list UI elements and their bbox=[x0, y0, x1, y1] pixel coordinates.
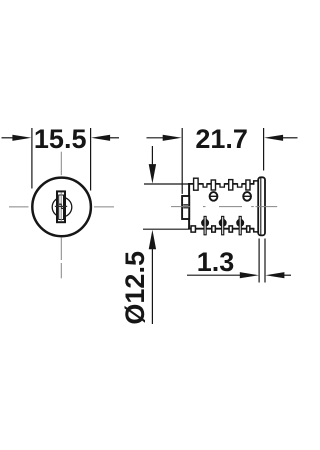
diameter 12.5 bottom extension line bbox=[143, 228, 189, 230]
bottom pin 2 stem bbox=[222, 216, 224, 234]
bottom pin 1 head bbox=[201, 219, 209, 227]
bottom tab 3 bbox=[229, 226, 232, 232]
front view plug circle bbox=[52, 197, 72, 217]
dimension 21.7 right dimension line bbox=[282, 137, 298, 139]
dimension 1.3 left dimension line bbox=[187, 274, 242, 276]
dimension 15.5 left dimension line bbox=[2, 137, 17, 139]
dimension 1.3 left extension line bbox=[258, 239, 260, 283]
flange inner line bbox=[260, 178, 262, 235]
diameter 12.5 upper arrow line bbox=[151, 146, 153, 166]
dimension 15.5 right dimension line bbox=[109, 137, 120, 139]
bottom tab 2 bbox=[212, 226, 216, 232]
top pin 2 bbox=[211, 180, 215, 190]
bottom pin 1 stem bbox=[204, 216, 206, 234]
dimension 1.3 right dimension line bbox=[283, 274, 292, 276]
top groove 1 bbox=[203, 183, 207, 187]
screw symbol right bbox=[243, 192, 251, 201]
cam at left bbox=[182, 196, 189, 219]
top groove 3 erase bbox=[237, 183, 242, 186]
dimension 21.7 left arrowhead bbox=[163, 135, 182, 141]
diameter 12.5 lower arrowhead (up) bbox=[149, 230, 156, 250]
front view vertical centerline bbox=[60, 152, 62, 279]
bottom pin 3 stem bbox=[239, 216, 241, 234]
body bottom edge bbox=[188, 228, 254, 230]
dimension 1.3 right extension line bbox=[264, 239, 266, 283]
bottom tab 4 bbox=[247, 226, 250, 232]
key profile cross line bbox=[55, 205, 67, 207]
cam inner line 2 bbox=[183, 205, 188, 207]
svg-text:Ø12.5: Ø12.5 bbox=[120, 251, 150, 325]
dimension 1.3 left arrowhead bbox=[240, 272, 259, 278]
top pin 1 bbox=[194, 178, 199, 190]
keyway centerline segment bbox=[60, 192, 62, 221]
body top edge bbox=[188, 183, 254, 185]
keyway inner rectangle bbox=[59, 195, 64, 220]
top pin 3 bbox=[229, 180, 233, 190]
dimension 21.7 left dimension line bbox=[147, 137, 165, 139]
front view outer circle (cylinder face) bbox=[32, 178, 91, 237]
cam inner line 3 bbox=[183, 207, 188, 209]
keyway outer rectangle bbox=[57, 191, 65, 222]
dimension 21.7 right extension line bbox=[263, 128, 265, 171]
cylinder body left edge bbox=[188, 183, 190, 229]
body right step top bbox=[254, 181, 259, 185]
dimension 21.7 left extension line bbox=[181, 128, 183, 194]
diameter 12.5 top extension line bbox=[144, 183, 189, 185]
bottom pin 2 head bbox=[219, 219, 227, 227]
top groove 1 erase bbox=[203, 183, 207, 186]
diameter 12.5 upper arrowhead (down) bbox=[149, 164, 156, 184]
cam inner line 1 bbox=[183, 204, 188, 206]
svg-text:15.5: 15.5 bbox=[34, 124, 87, 154]
dimension 15.5 right extension line bbox=[90, 128, 92, 191]
dimension 1.3 right arrowhead bbox=[265, 272, 284, 278]
dimension 21.7 right arrowhead bbox=[264, 135, 283, 141]
top groove 2 bbox=[220, 183, 224, 187]
side view centerline segments bbox=[171, 206, 277, 208]
screw symbol left bbox=[210, 192, 218, 201]
flange (face ring) bbox=[258, 177, 265, 235]
dimension 15.5 right arrowhead bbox=[91, 135, 110, 141]
dimension 15.5 left arrowhead bbox=[12, 135, 31, 141]
top pin 4 bbox=[246, 180, 250, 190]
svg-text:21.7: 21.7 bbox=[195, 124, 248, 154]
bottom pin 3 head bbox=[236, 219, 244, 227]
bottom tab 1 bbox=[191, 226, 195, 232]
key profile center step bbox=[60, 204, 62, 208]
diameter 12.5 lower arrow line bbox=[151, 247, 153, 324]
key profile left notch bbox=[59, 203, 62, 205]
body right step bottom bbox=[254, 228, 259, 232]
dimension 15.5 left extension line bbox=[31, 128, 33, 189]
key profile right notch bbox=[61, 207, 64, 209]
top groove 3 bbox=[238, 183, 242, 187]
top groove 2 erase bbox=[220, 183, 225, 186]
svg-text:1.3: 1.3 bbox=[197, 247, 235, 277]
front view horizontal centerline bbox=[9, 206, 114, 208]
